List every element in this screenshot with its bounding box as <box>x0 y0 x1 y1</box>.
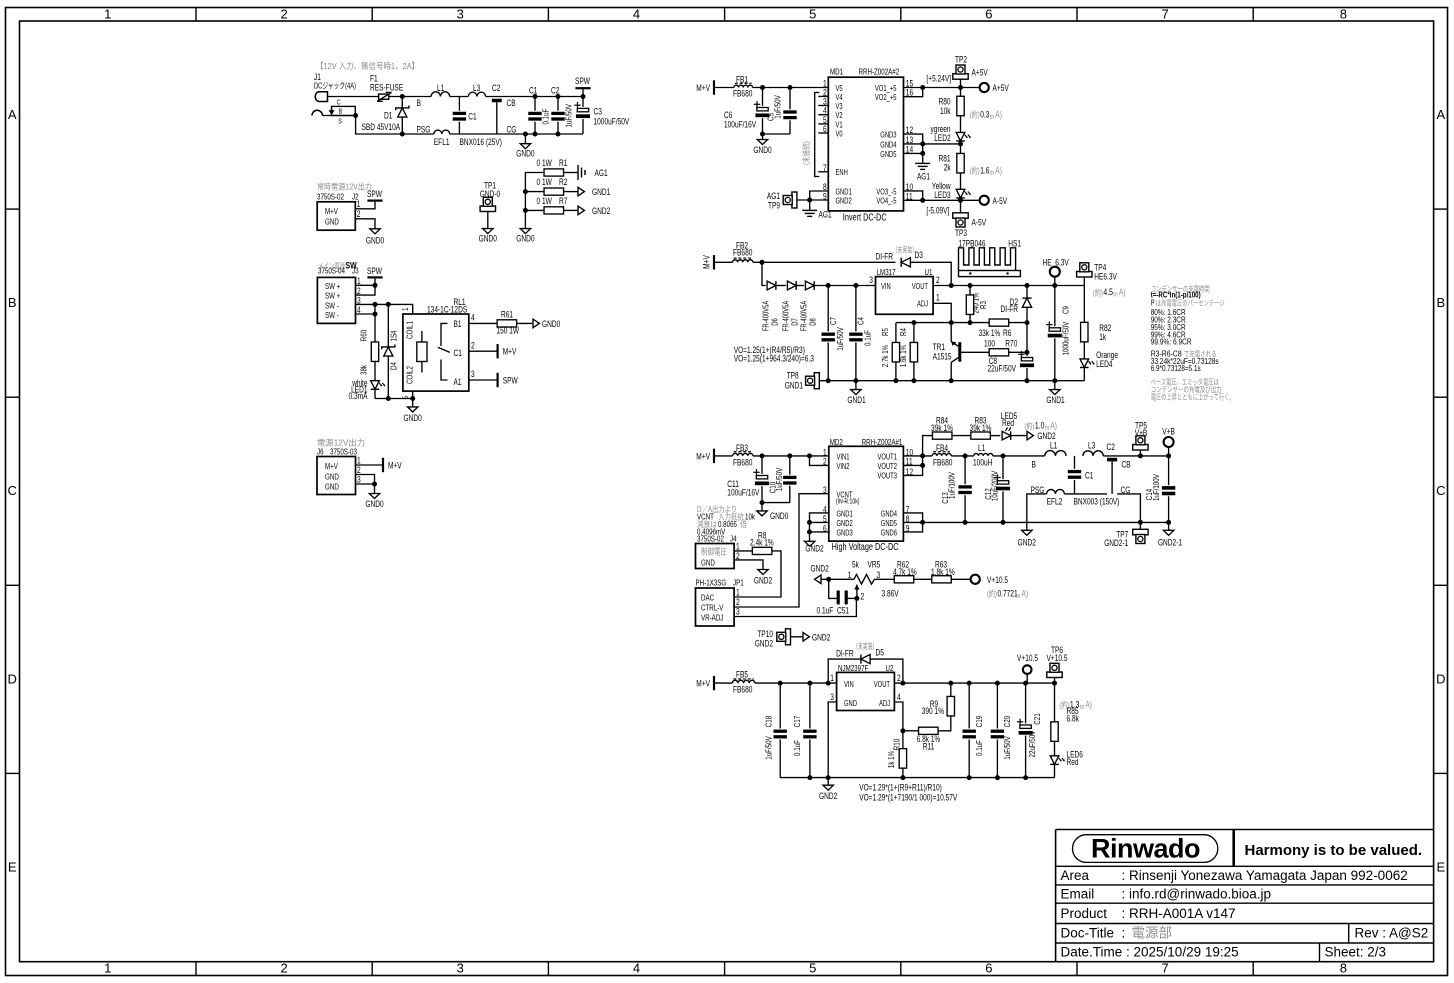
diode D8 <box>805 281 814 290</box>
svg-text:A): A) <box>1022 588 1029 598</box>
svg-text:2.4k 1%: 2.4k 1% <box>750 537 774 547</box>
junction <box>968 283 973 288</box>
svg-text:GND: GND <box>325 472 339 482</box>
junction <box>556 94 561 99</box>
relay RL1 <box>403 314 469 391</box>
svg-text:DCジャック(4A): DCジャック(4A) <box>314 81 356 91</box>
svg-text:4.5: 4.5 <box>1103 287 1113 298</box>
svg-text:TP3: TP3 <box>955 228 967 238</box>
svg-text:1.6: 1.6 <box>980 165 989 175</box>
svg-text:C6: C6 <box>724 110 732 120</box>
junction <box>760 453 765 458</box>
svg-text:J6: J6 <box>317 447 324 457</box>
wire D2 to R70 <box>1026 323 1028 353</box>
svg-text:m: m <box>1016 593 1020 600</box>
svg-text:6: 6 <box>985 7 992 22</box>
diode D1 <box>401 97 403 108</box>
junction <box>854 596 859 601</box>
svg-text:BNX003 (150V): BNX003 (150V) <box>1074 497 1120 507</box>
ground GND1 under C4 <box>855 381 857 390</box>
wire jack switch down <box>356 116 403 135</box>
svg-text:AG1: AG1 <box>917 172 930 182</box>
diode D5 <box>828 659 861 683</box>
svg-text:D: D <box>1436 671 1445 686</box>
svg-text:(約): (約) <box>970 165 980 175</box>
svg-text:AG1: AG1 <box>595 168 608 178</box>
svg-text:HS1: HS1 <box>1008 238 1021 248</box>
svg-text:DI-FR: DI-FR <box>836 648 854 658</box>
junction <box>826 378 831 383</box>
svg-text:AG1: AG1 <box>767 191 780 201</box>
svg-text:R80: R80 <box>939 97 951 107</box>
junction <box>1166 453 1171 458</box>
svg-text:EFL1: EFL1 <box>434 137 450 147</box>
junction <box>920 85 925 90</box>
test point TP3 <box>960 200 962 213</box>
svg-text:C: C <box>8 483 17 498</box>
svg-text:1k: 1k <box>1099 332 1106 342</box>
junction <box>920 520 925 525</box>
junction <box>807 775 812 780</box>
junction <box>523 208 528 213</box>
svg-text:(約): (約) <box>1024 421 1034 431</box>
wire ground tie bus <box>525 173 544 229</box>
wire FB2 to D3 <box>753 261 896 263</box>
junction <box>968 320 973 325</box>
junction <box>963 453 968 458</box>
svg-text:1: 1 <box>936 293 940 303</box>
svg-text:GND3: GND3 <box>837 528 854 537</box>
svg-text:3750S-04: 3750S-04 <box>318 266 345 276</box>
svg-text:1uF/50V: 1uF/50V <box>774 468 784 492</box>
svg-text:GND0: GND0 <box>770 511 788 521</box>
svg-text:VO1_+5: VO1_+5 <box>875 84 897 93</box>
svg-text:1uF/50V: 1uF/50V <box>764 736 774 760</box>
svg-text:2: 2 <box>736 597 740 607</box>
svg-text:VOUT1: VOUT1 <box>878 453 898 462</box>
svg-text:GND0: GND0 <box>479 234 497 244</box>
svg-text:100uF/16V: 100uF/16V <box>724 120 756 130</box>
wire JP1 pin2 to VCNT <box>734 494 829 607</box>
svg-text:1: 1 <box>104 7 111 22</box>
svg-text:2.7k 1%: 2.7k 1% <box>880 344 890 367</box>
junction <box>807 520 812 525</box>
ground GND0 MD2 <box>761 503 763 511</box>
terminal A+5V <box>980 83 989 92</box>
svg-text:FR-400V5A: FR-400V5A <box>762 300 771 331</box>
svg-text:FB680: FB680 <box>733 247 752 257</box>
svg-text:B1: B1 <box>454 319 462 329</box>
terminal V+10.5 <box>971 575 980 584</box>
svg-text:DI-FR: DI-FR <box>876 252 894 262</box>
svg-text:FB680: FB680 <box>733 684 752 694</box>
wire J6 pin2 pin3 <box>356 475 375 485</box>
svg-text:GND: GND <box>844 699 857 708</box>
connector JP1 <box>696 588 735 626</box>
svg-text:390 1%: 390 1% <box>922 706 944 716</box>
svg-text:0.1uF: 0.1uF <box>541 109 551 125</box>
svg-text:TP9: TP9 <box>768 201 780 211</box>
svg-text:m: m <box>990 170 994 177</box>
junction <box>807 198 812 203</box>
svg-text:HE6.3V: HE6.3V <box>1094 272 1117 282</box>
svg-text:VO=1.29*(1+(R9+R11)/R10): VO=1.29*(1+(R9+R11)/R10) <box>859 783 942 793</box>
svg-text:R1: R1 <box>559 158 567 168</box>
svg-text:電源部: 電源部 <box>1132 926 1173 941</box>
svg-text:E: E <box>8 859 17 874</box>
svg-text:M+V: M+V <box>388 461 402 471</box>
svg-text:R70: R70 <box>1005 338 1017 348</box>
svg-text:D8: D8 <box>809 318 818 326</box>
svg-text:M+V: M+V <box>325 461 338 471</box>
svg-text:VOUT: VOUT <box>912 282 928 291</box>
wire relay coil ground <box>375 398 413 400</box>
junction <box>958 85 963 90</box>
junction <box>807 681 812 686</box>
svg-text:M+V: M+V <box>696 451 710 461</box>
junction <box>373 302 378 307</box>
junction <box>948 681 953 686</box>
svg-text:2: 2 <box>861 592 865 602</box>
svg-text:1: 1 <box>357 456 361 466</box>
wire J3 pin3 <box>356 304 413 314</box>
earth AG1 MD1 right <box>922 153 924 163</box>
svg-text:Area: Area <box>1061 868 1090 883</box>
wire L1 to L3 <box>450 96 469 98</box>
svg-text:ADJ: ADJ <box>879 699 890 708</box>
svg-text:PSG: PSG <box>417 125 431 135</box>
regulator U1 <box>876 277 934 315</box>
wire FB5 to U2 <box>755 682 837 684</box>
svg-text:V3: V3 <box>836 102 843 111</box>
svg-text:FB680: FB680 <box>733 89 752 99</box>
module MD1 <box>828 77 903 211</box>
svg-text:C1: C1 <box>1085 471 1093 481</box>
wire L3 to V+B <box>1103 455 1168 457</box>
diode D6 <box>767 281 776 290</box>
svg-text:m: m <box>990 114 994 121</box>
svg-text:(約): (約) <box>970 109 980 119</box>
junction <box>949 378 954 383</box>
svg-text:7: 7 <box>1161 7 1168 22</box>
junction <box>920 198 925 203</box>
svg-text:D4: D4 <box>389 362 399 370</box>
svg-text:FR-400V5A: FR-400V5A <box>782 300 791 331</box>
svg-text:A1515: A1515 <box>933 352 952 362</box>
junction <box>995 775 1000 780</box>
wire J1 to F1 <box>328 96 379 98</box>
test point TP8 <box>814 373 819 389</box>
svg-text:3: 3 <box>457 7 464 22</box>
svg-text:0.3mA: 0.3mA <box>349 391 368 401</box>
svg-text:M+V: M+V <box>503 347 517 357</box>
svg-text:GND2: GND2 <box>1037 431 1055 441</box>
svg-text:2: 2 <box>897 673 901 683</box>
svg-text:VO2_+5: VO2_+5 <box>875 93 897 102</box>
svg-text:R11: R11 <box>923 741 935 751</box>
svg-text:C19: C19 <box>974 716 984 728</box>
junction <box>807 529 812 534</box>
junction <box>533 94 538 99</box>
svg-text:Rinwado: Rinwado <box>1091 834 1200 864</box>
svg-text:は充電電圧のパーセンテージ: は充電電圧のパーセンテージ <box>1156 297 1225 307</box>
svg-text:VO=1.29*(1+7190/1 000)=10.57V: VO=1.29*(1+7190/1 000)=10.57V <box>859 793 957 803</box>
svg-text:CG: CG <box>507 125 517 135</box>
wire U2 ADJ <box>894 702 903 731</box>
svg-text:GND2: GND2 <box>837 519 854 528</box>
svg-text:C20: C20 <box>1002 716 1012 728</box>
ground GND2 rail marker <box>1026 522 1028 530</box>
svg-text:3: 3 <box>357 475 361 485</box>
svg-text:17PB046: 17PB046 <box>959 238 986 248</box>
svg-text:GND4: GND4 <box>880 140 897 149</box>
title block grid <box>1056 830 1434 962</box>
svg-text:RRH-Z002A#1: RRH-Z002A#1 <box>862 437 903 447</box>
svg-text:R6: R6 <box>1003 328 1011 338</box>
svg-text:（未実装）: （未実装） <box>853 641 878 651</box>
svg-text:GND1: GND1 <box>785 380 803 390</box>
svg-text:C9: C9 <box>1061 306 1071 314</box>
earth AG1 MD1 left <box>809 200 811 210</box>
junction <box>1138 453 1143 458</box>
svg-text:100uH: 100uH <box>973 457 992 467</box>
ground GND0 input <box>524 134 526 144</box>
junction <box>920 141 925 146</box>
svg-text:倍: 倍 <box>740 519 747 529</box>
svg-text:3750S-02: 3750S-02 <box>697 534 724 544</box>
svg-text:U1: U1 <box>925 267 933 277</box>
svg-text:Doc-Title: Doc-Title <box>1061 926 1115 941</box>
junction <box>400 94 405 99</box>
svg-text:C1: C1 <box>454 348 462 358</box>
ground GND0 relay <box>408 407 418 412</box>
junction <box>967 681 972 686</box>
svg-text:[-5.09V]: [-5.09V] <box>926 206 949 216</box>
wire MD1 pin15 pin16 <box>904 87 980 89</box>
svg-text:GND1: GND1 <box>837 510 854 519</box>
terminal A-5V <box>980 196 989 205</box>
regulator U2 <box>837 672 895 710</box>
wire C5 C6 ground <box>763 133 791 135</box>
junction <box>920 463 925 468</box>
svg-text:SPW: SPW <box>367 189 382 199</box>
svg-text:GND: GND <box>325 482 339 492</box>
wire FB2 down to diodes <box>762 262 766 285</box>
svg-text:: RRH-A001A v147: : RRH-A001A v147 <box>1122 906 1236 921</box>
svg-text:B: B <box>1436 295 1445 310</box>
svg-text:VO3_-5: VO3_-5 <box>876 187 896 196</box>
svg-text:1.0: 1.0 <box>1035 421 1045 432</box>
junction <box>958 198 963 203</box>
svg-text:TR1: TR1 <box>933 342 945 352</box>
svg-text::: : <box>1122 926 1126 941</box>
svg-text:D1: D1 <box>384 111 392 121</box>
svg-text:VIN2: VIN2 <box>837 462 850 471</box>
svg-text:GND5: GND5 <box>880 150 897 159</box>
svg-text:C18: C18 <box>764 716 774 728</box>
fuse F1 <box>379 94 389 99</box>
svg-text:100uF/16V: 100uF/16V <box>727 487 759 497</box>
svg-text:SW +: SW + <box>325 281 340 291</box>
junction <box>373 283 378 288</box>
svg-text:2: 2 <box>357 209 361 219</box>
svg-text:A): A) <box>995 165 1002 175</box>
svg-text:常時電源12V出力: 常時電源12V出力 <box>317 182 372 192</box>
svg-text:GND2: GND2 <box>755 639 773 649</box>
svg-text:(IN-R:10k): (IN-R:10k) <box>836 499 860 506</box>
svg-text:GND2: GND2 <box>811 564 829 574</box>
svg-text:(約): (約) <box>1093 288 1103 298</box>
svg-text:AG1: AG1 <box>819 210 832 220</box>
svg-text:D5: D5 <box>876 648 884 658</box>
svg-text:A-5V: A-5V <box>993 196 1008 206</box>
svg-text:FR-400V5A: FR-400V5A <box>800 300 809 331</box>
svg-text:RRH-Z002A#2: RRH-Z002A#2 <box>859 67 900 77</box>
svg-text:B: B <box>339 107 343 116</box>
svg-text:Email: Email <box>1061 887 1095 902</box>
svg-text:NJM2397F: NJM2397F <box>838 663 868 673</box>
test point TP9 <box>792 192 797 208</box>
ground GND2 MD2 <box>805 541 815 546</box>
ground GND2 J4 <box>758 570 768 575</box>
svg-text:C1: C1 <box>468 112 476 122</box>
svg-text:A: A <box>8 107 17 122</box>
ground GND0 tie <box>520 229 530 234</box>
junction <box>386 396 391 401</box>
svg-text:1000uF/50V: 1000uF/50V <box>594 117 630 127</box>
ground GND0 TP1 <box>483 229 493 234</box>
svg-text:3: 3 <box>869 275 873 285</box>
svg-text:0.1uF: 0.1uF <box>792 740 802 756</box>
svg-text:5k: 5k <box>852 559 859 569</box>
svg-text:(約): (約) <box>987 588 997 598</box>
svg-text:R61: R61 <box>501 310 513 320</box>
junction <box>826 681 831 686</box>
svg-text:GND1: GND1 <box>592 187 610 197</box>
junction <box>386 302 391 307</box>
wire J2 pin1 <box>355 201 375 209</box>
junction <box>900 775 905 780</box>
svg-text:FB3: FB3 <box>736 443 748 453</box>
svg-text:M+V: M+V <box>325 206 338 216</box>
svg-text:D: D <box>8 671 17 686</box>
svg-text:TP2: TP2 <box>955 55 967 65</box>
svg-text:LED4: LED4 <box>1096 359 1112 369</box>
svg-text:V5: V5 <box>836 84 843 93</box>
svg-text:R4: R4 <box>898 328 908 336</box>
svg-text:Red: Red <box>1067 757 1079 767</box>
junction <box>963 520 968 525</box>
svg-text:4: 4 <box>633 7 640 22</box>
diode D2 <box>1026 286 1028 298</box>
power flag SPW relay <box>469 379 498 381</box>
inductor L2 <box>434 130 450 134</box>
junction <box>1023 681 1028 686</box>
svg-text:A+5V: A+5V <box>993 83 1009 93</box>
svg-text:7: 7 <box>1161 961 1168 976</box>
wire J4 pin2 gnd <box>734 560 763 570</box>
wire bottom rail input <box>402 133 434 135</box>
junction <box>900 681 905 686</box>
connector J1 DC jack <box>315 92 327 102</box>
svg-text:3: 3 <box>877 570 881 580</box>
svg-text:3: 3 <box>823 485 827 495</box>
svg-text:Product: Product <box>1061 906 1108 921</box>
svg-text:L3: L3 <box>1088 441 1095 451</box>
svg-text:C3: C3 <box>594 107 602 117</box>
junction <box>967 775 972 780</box>
svg-text:0.1uF: 0.1uF <box>974 740 984 756</box>
svg-text:SW -: SW - <box>325 300 339 310</box>
wire U1 ADJ <box>933 303 951 322</box>
svg-text:C2: C2 <box>492 83 500 93</box>
svg-text:GND2: GND2 <box>1018 537 1036 547</box>
svg-text:GND0: GND0 <box>753 145 771 155</box>
svg-text:1uF/50V: 1uF/50V <box>564 104 574 128</box>
svg-text:3.86V: 3.86V <box>882 589 899 599</box>
wire FB3 to MD2 <box>753 455 829 457</box>
svg-text:LED2: LED2 <box>934 133 950 143</box>
junction <box>911 320 916 325</box>
wire L1 to EFL2 <box>993 455 1045 457</box>
junction <box>1166 520 1171 525</box>
svg-text:C2: C2 <box>1107 442 1115 452</box>
power flag M+V MD2 <box>713 449 715 463</box>
inductor L2 EFL2 <box>1047 489 1065 493</box>
svg-text:1uF/50V: 1uF/50V <box>773 95 783 119</box>
connector J4 <box>696 544 735 569</box>
svg-text:2: 2 <box>280 7 287 22</box>
wire PSG CG rail <box>1027 494 1047 523</box>
svg-text:2: 2 <box>280 961 287 976</box>
svg-text:6.8k: 6.8k <box>1067 713 1080 723</box>
junction <box>760 85 765 90</box>
junction <box>533 132 538 137</box>
connector J2 <box>317 202 355 230</box>
svg-text:（未実装）: （未実装） <box>893 245 918 255</box>
svg-text:0.1uF: 0.1uF <box>817 606 834 616</box>
svg-text:VOUT: VOUT <box>874 680 890 689</box>
svg-text:L1: L1 <box>1050 441 1057 451</box>
svg-text:U2: U2 <box>886 663 894 673</box>
svg-text:R7: R7 <box>559 196 567 206</box>
junction <box>920 151 925 156</box>
svg-text:4: 4 <box>471 313 475 323</box>
svg-text:Rev : A@S2: Rev : A@S2 <box>1355 926 1429 941</box>
svg-text:FB4: FB4 <box>936 443 948 453</box>
svg-text:Harmony is to be valued.: Harmony is to be valued. <box>1245 842 1423 859</box>
junction <box>807 453 812 458</box>
svg-text:GND2-1: GND2-1 <box>1104 538 1128 548</box>
svg-text:38k: 38k <box>359 364 369 375</box>
svg-text:GND0: GND0 <box>365 499 383 509</box>
wire C10 C11 ground <box>762 502 790 504</box>
junction <box>1052 283 1057 288</box>
svg-text:M+V: M+V <box>696 83 710 93</box>
wire JP1 pin3 to VR wiper <box>734 598 856 616</box>
wire J3 pin1 pin2 <box>356 284 376 286</box>
svg-text:電圧の上昇とともに上がって行く。: 電圧の上昇とともに上がって行く。 <box>1151 392 1235 402</box>
svg-text:4: 4 <box>897 692 901 702</box>
connector J3 <box>317 277 355 323</box>
junction <box>900 728 905 733</box>
junction <box>760 500 765 505</box>
svg-text:VR-ADJ: VR-ADJ <box>701 613 723 623</box>
junction <box>760 260 765 265</box>
svg-text:V4: V4 <box>836 93 843 102</box>
svg-text:Date.Time : 2025/10/29 19:25: Date.Time : 2025/10/29 19:25 <box>1061 945 1239 960</box>
net flag GND0 R61 <box>533 319 539 328</box>
